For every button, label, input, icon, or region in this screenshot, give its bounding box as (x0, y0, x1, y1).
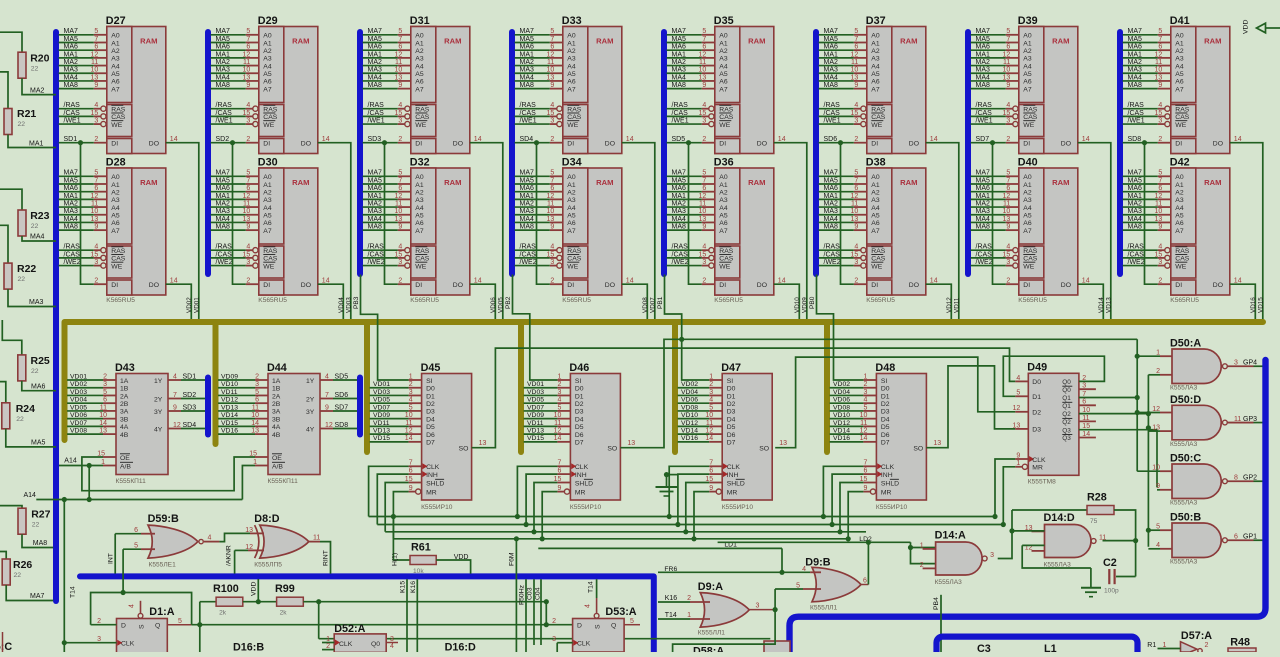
svg-text:4: 4 (1006, 102, 1010, 109)
svg-text:/WE1: /WE1 (64, 117, 81, 124)
svg-text:A5: A5 (719, 71, 728, 78)
svg-text:4: 4 (702, 244, 706, 251)
svg-text:13: 13 (699, 216, 707, 223)
svg-text:R100: R100 (213, 583, 239, 595)
svg-text:Q3: Q3 (1062, 427, 1071, 434)
svg-text:12: 12 (243, 193, 251, 200)
svg-text:CLK: CLK (426, 464, 440, 471)
svg-text:RINT: RINT (323, 550, 330, 566)
svg-text:DI: DI (871, 141, 878, 148)
svg-text:3B: 3B (120, 416, 129, 423)
svg-text:A3: A3 (871, 56, 880, 63)
svg-text:A5: A5 (263, 71, 272, 78)
svg-text:MA3: MA3 (64, 67, 79, 74)
OE link D43-D44 (82, 457, 255, 491)
svg-text:К555ЛП5: К555ЛП5 (254, 562, 282, 569)
svg-text:D4: D4 (575, 416, 584, 423)
svg-text:2k: 2k (280, 610, 288, 617)
svg-text:A4: A4 (567, 205, 576, 212)
power VCC arrow (1257, 23, 1266, 33)
svg-text:4: 4 (1158, 102, 1162, 109)
svg-text:DI: DI (263, 141, 270, 148)
svg-text:CLK: CLK (727, 464, 741, 471)
svg-text:VD09: VD09 (801, 297, 808, 313)
svg-text:7: 7 (1006, 36, 1010, 43)
svg-text:D16:B: D16:B (233, 642, 264, 653)
svg-text:A7: A7 (871, 86, 880, 93)
blue bus GP right side and box (790, 360, 1266, 652)
svg-text:9: 9 (854, 82, 858, 89)
svg-text:VD13: VD13 (527, 428, 544, 435)
svg-text:3: 3 (702, 259, 706, 266)
svg-text:MA3: MA3 (368, 208, 383, 215)
svg-text:13: 13 (395, 216, 403, 223)
svg-text:5: 5 (1016, 390, 1020, 397)
svg-text:2Y: 2Y (154, 396, 163, 403)
svg-text:VD12: VD12 (833, 420, 850, 427)
svg-text:A2: A2 (1175, 189, 1184, 196)
svg-text:D44: D44 (267, 362, 287, 374)
svg-text:D40: D40 (1018, 157, 1038, 169)
svg-text:MA3: MA3 (216, 208, 231, 215)
svg-text:A1: A1 (263, 40, 272, 47)
svg-text:A/B: A/B (272, 463, 283, 470)
svg-text:INH: INH (727, 472, 739, 479)
svg-text:A5: A5 (111, 213, 120, 220)
svg-text:VD01: VD01 (373, 381, 390, 388)
svg-text:11: 11 (1155, 200, 1162, 207)
svg-text:L1: L1 (1044, 643, 1057, 652)
svg-text:5: 5 (398, 170, 402, 177)
svg-text:CLK: CLK (1032, 457, 1046, 464)
svg-text:VDD: VDD (454, 554, 469, 561)
svg-text:3: 3 (103, 381, 107, 388)
svg-text:MA6: MA6 (824, 44, 839, 51)
NAND gate D14:D K555LA3 (1025, 512, 1107, 569)
svg-text:A1: A1 (719, 182, 728, 189)
svg-text:MA2: MA2 (64, 200, 79, 207)
net FR6 (658, 571, 810, 573)
svg-text:CAS: CAS (719, 256, 733, 263)
svg-text:9: 9 (1006, 82, 1010, 89)
svg-text:MA7: MA7 (1128, 28, 1143, 35)
svg-text:A3: A3 (871, 197, 880, 204)
svg-text:12: 12 (395, 193, 403, 200)
svg-text:DO: DO (453, 141, 463, 148)
svg-text:4: 4 (398, 244, 402, 251)
svg-text:CAS: CAS (1023, 256, 1037, 263)
svg-text:VD07: VD07 (527, 404, 544, 411)
svg-text:4: 4 (702, 102, 706, 109)
svg-text:/WE2: /WE2 (368, 259, 385, 266)
XOR gate D8:D K555LP5 (235, 513, 309, 569)
svg-text:13: 13 (851, 216, 859, 223)
svg-text:14: 14 (930, 277, 938, 284)
svg-text:3: 3 (398, 259, 402, 266)
svg-text:6: 6 (854, 44, 858, 51)
svg-text:VD15: VD15 (1257, 297, 1264, 313)
svg-text:13: 13 (1013, 422, 1021, 429)
svg-text:3: 3 (756, 603, 760, 610)
svg-text:15: 15 (851, 251, 859, 258)
svg-text:2: 2 (246, 277, 250, 284)
svg-text:RAM: RAM (444, 37, 461, 46)
svg-text:CAS: CAS (111, 114, 125, 121)
svg-text:VD09: VD09 (221, 373, 238, 380)
svg-text:MA2: MA2 (976, 200, 991, 207)
svg-text:K565RU5: K565RU5 (866, 297, 895, 304)
svg-text:CAS: CAS (263, 114, 277, 121)
svg-text:2A: 2A (120, 393, 129, 400)
svg-text:VD10: VD10 (833, 412, 850, 419)
svg-text:OE: OE (272, 455, 282, 462)
svg-text:SI: SI (426, 378, 433, 385)
svg-text:RAS: RAS (415, 107, 429, 114)
svg-text:PB3: PB3 (353, 296, 360, 309)
svg-text:14: 14 (778, 136, 786, 143)
svg-text:PB4: PB4 (933, 597, 940, 610)
svg-text:22: 22 (31, 368, 39, 375)
vertical nets feeding D50 gates (1147, 375, 1149, 547)
svg-text:D14:D: D14:D (1044, 512, 1075, 524)
svg-text:RAM: RAM (140, 37, 157, 46)
svg-text:MR: MR (1032, 465, 1043, 472)
svg-text:DI: DI (111, 282, 118, 289)
D14:D out wire (1103, 540, 1136, 542)
svg-text:13: 13 (1155, 74, 1163, 81)
svg-text:DO: DO (757, 282, 767, 289)
svg-text:9: 9 (1016, 452, 1020, 459)
svg-text:SD1: SD1 (64, 136, 78, 143)
svg-text:VD11: VD11 (953, 297, 960, 313)
svg-text:5: 5 (94, 28, 98, 35)
svg-text:7: 7 (854, 36, 858, 43)
D9:A out to D9:B in (774, 589, 776, 610)
svg-text:A0: A0 (263, 174, 272, 181)
svg-text:D2: D2 (727, 401, 736, 408)
svg-text:VD01: VD01 (70, 373, 87, 380)
svg-text:MA8: MA8 (64, 82, 79, 89)
svg-text:A0: A0 (719, 174, 728, 181)
svg-text:3: 3 (246, 117, 250, 124)
svg-text:22: 22 (18, 121, 26, 128)
svg-text:12: 12 (1155, 193, 1163, 200)
R61 wiring (393, 517, 410, 561)
svg-text:DI: DI (1175, 141, 1182, 148)
svg-text:VD10: VD10 (221, 381, 238, 388)
svg-text:10: 10 (91, 67, 99, 74)
svg-text:A5: A5 (1023, 213, 1032, 220)
svg-text:/CAS: /CAS (64, 110, 81, 117)
svg-text:MA4: MA4 (672, 74, 687, 81)
svg-text:12: 12 (395, 51, 403, 58)
svg-text:A7: A7 (567, 228, 576, 235)
svg-text:D7: D7 (881, 440, 890, 447)
svg-text:3Y: 3Y (306, 409, 315, 416)
svg-text:A1: A1 (871, 40, 880, 47)
svg-text:7: 7 (709, 460, 713, 467)
svg-text:12: 12 (243, 51, 251, 58)
svg-text:Q0: Q0 (1062, 379, 1071, 386)
svg-text:9: 9 (702, 224, 706, 231)
net LD2 (718, 541, 911, 543)
R100/R99 wiring (200, 601, 216, 603)
svg-text:6: 6 (1234, 534, 1238, 541)
svg-text:9: 9 (173, 404, 177, 411)
svg-text:D4: D4 (426, 416, 435, 423)
svg-text:MA2: MA2 (976, 59, 991, 66)
svg-text:MA6: MA6 (672, 185, 687, 192)
svg-text:/CAS: /CAS (672, 251, 689, 258)
svg-text:11: 11 (313, 535, 320, 542)
svg-text:MA8: MA8 (976, 82, 991, 89)
svg-text:2: 2 (702, 277, 706, 284)
svg-text:MA6: MA6 (976, 185, 991, 192)
resistor R99 2k (277, 597, 304, 606)
svg-text:D42: D42 (1170, 157, 1190, 169)
svg-text:/WE2: /WE2 (672, 259, 689, 266)
svg-text:DO: DO (605, 282, 615, 289)
svg-text:3: 3 (97, 636, 101, 643)
svg-text:VD14: VD14 (833, 428, 850, 435)
NAND gate D14:A K555LA3 (920, 530, 994, 587)
svg-text:D45: D45 (421, 362, 441, 374)
D45 control wiring (369, 466, 409, 516)
svg-text:SHLD: SHLD (881, 480, 899, 487)
svg-text:6: 6 (246, 185, 250, 192)
D1:A feedback loop (91, 593, 192, 625)
svg-text:SD5: SD5 (335, 373, 349, 380)
svg-text:VD16: VD16 (681, 435, 698, 442)
svg-text:2: 2 (1006, 136, 1010, 143)
svg-text:10: 10 (1152, 465, 1160, 472)
svg-text:A7: A7 (567, 86, 576, 93)
bus PB2 column 2 (205, 32, 211, 274)
svg-text:VD01: VD01 (193, 297, 200, 313)
svg-text:RAM: RAM (900, 37, 917, 46)
svg-text:5: 5 (134, 543, 138, 550)
svg-text:R22: R22 (17, 263, 36, 275)
svg-text:VD15: VD15 (527, 435, 544, 442)
svg-text:2: 2 (709, 381, 713, 388)
net LD1 (538, 547, 782, 549)
svg-text:6: 6 (702, 185, 706, 192)
svg-text:D58:A: D58:A (693, 646, 724, 653)
net SD2 (211, 142, 246, 144)
Q output long wire (192, 624, 573, 626)
svg-text:MA4: MA4 (520, 216, 535, 223)
svg-text:D0: D0 (426, 386, 435, 393)
svg-text:D32: D32 (410, 157, 430, 169)
svg-text:MA4: MA4 (30, 234, 45, 241)
svg-text:6: 6 (1006, 185, 1010, 192)
svg-text:4: 4 (550, 102, 554, 109)
svg-text:14: 14 (554, 435, 562, 442)
wire to D1:A D-input loop (122, 549, 124, 592)
svg-text:K565RU5: K565RU5 (106, 297, 135, 304)
svg-text:CLK: CLK (121, 641, 135, 648)
svg-text:MA4: MA4 (1128, 216, 1143, 223)
svg-text:A4: A4 (871, 205, 880, 212)
svg-text:A2: A2 (871, 48, 880, 55)
svg-text:12: 12 (547, 51, 555, 58)
svg-text:A4: A4 (1023, 63, 1032, 70)
svg-text:MA1: MA1 (368, 51, 383, 58)
svg-text:12: 12 (91, 193, 99, 200)
svg-text:3: 3 (94, 117, 98, 124)
svg-text:T14: T14 (588, 581, 595, 593)
svg-text:/CAS: /CAS (216, 251, 233, 258)
svg-text:RAS: RAS (1023, 107, 1037, 114)
RAM D32 K565RU5 (363, 157, 496, 321)
svg-text:SD8: SD8 (1128, 136, 1142, 143)
svg-text:13: 13 (91, 74, 99, 81)
svg-text:MA1: MA1 (1128, 193, 1143, 200)
svg-text:D36: D36 (714, 157, 734, 169)
svg-text:15: 15 (699, 110, 707, 117)
svg-text:2: 2 (103, 373, 107, 380)
svg-text:A3: A3 (1175, 197, 1184, 204)
svg-text:D43: D43 (115, 362, 135, 374)
svg-text:10: 10 (1003, 208, 1011, 215)
svg-text:D7: D7 (575, 440, 584, 447)
bus PB7 column 7 (965, 32, 971, 274)
svg-text:6: 6 (863, 578, 867, 585)
svg-text:MA5: MA5 (64, 36, 79, 43)
svg-text:MA3: MA3 (824, 67, 839, 74)
svg-text:C3: C3 (977, 643, 991, 652)
svg-text:2: 2 (94, 277, 98, 284)
svg-text:MA4: MA4 (824, 216, 839, 223)
svg-text:DO: DO (909, 141, 919, 148)
svg-text:10: 10 (395, 67, 403, 74)
svg-text:VD05: VD05 (70, 404, 87, 411)
svg-text:6: 6 (409, 468, 413, 475)
svg-text:VD07: VD07 (70, 420, 87, 427)
svg-text:/CAS: /CAS (368, 110, 385, 117)
svg-text:A5: A5 (719, 213, 728, 220)
svg-text:RAS: RAS (871, 248, 885, 255)
svg-text:/RAS: /RAS (368, 244, 385, 251)
svg-text:A2: A2 (111, 189, 120, 196)
svg-text:MA4: MA4 (64, 216, 79, 223)
svg-text:D2: D2 (426, 401, 435, 408)
net SD7 (971, 142, 1006, 144)
svg-text:K565RU5: K565RU5 (714, 297, 743, 304)
svg-text:10k: 10k (413, 568, 424, 575)
net T14 to D53 S (596, 579, 598, 598)
svg-text:SHLD: SHLD (575, 480, 593, 487)
svg-text:A7: A7 (1175, 86, 1184, 93)
svg-text:A0: A0 (415, 174, 424, 181)
svg-text:D50:A: D50:A (1170, 338, 1201, 350)
svg-text:5: 5 (255, 389, 259, 396)
svg-text:MA8: MA8 (368, 224, 383, 231)
svg-text:A7: A7 (1175, 228, 1184, 235)
svg-text:A5: A5 (1175, 213, 1184, 220)
svg-text:К555ИР10: К555ИР10 (421, 504, 453, 511)
SI feed D45 from bus PB3 (361, 275, 409, 381)
svg-text:12: 12 (705, 428, 713, 435)
svg-text:1: 1 (863, 373, 867, 380)
svg-text:4Y: 4Y (306, 426, 315, 433)
svg-text:D47: D47 (721, 362, 741, 374)
net F6M (515, 539, 517, 652)
svg-text:7: 7 (550, 177, 554, 184)
svg-text:A5: A5 (263, 213, 272, 220)
svg-text:A0: A0 (415, 33, 424, 40)
svg-text:1: 1 (920, 542, 924, 549)
wire D59 out to D8 in13 (204, 541, 219, 543)
svg-text:MA8: MA8 (672, 224, 687, 231)
svg-text:DO: DO (757, 141, 767, 148)
resistor R21 22 (4, 109, 12, 135)
svg-text:S: S (139, 624, 146, 629)
svg-text:D38: D38 (866, 157, 886, 169)
svg-text:/WE2: /WE2 (64, 259, 81, 266)
long wire at 638.7 (319, 638, 771, 640)
svg-text:MA1: MA1 (1128, 51, 1143, 58)
svg-text:SD3: SD3 (183, 404, 197, 411)
svg-text:6: 6 (702, 44, 706, 51)
svg-text:22: 22 (31, 223, 39, 230)
svg-text:D50:D: D50:D (1170, 394, 1201, 406)
svg-text:14: 14 (170, 277, 178, 284)
AB link to D44 (242, 466, 255, 500)
svg-text:A3: A3 (567, 56, 576, 63)
resistor R20 22 (18, 52, 26, 78)
svg-text:MA1: MA1 (216, 51, 231, 58)
svg-text:MA4: MA4 (672, 216, 687, 223)
svg-text:VD03: VD03 (345, 297, 352, 313)
svg-text:9: 9 (702, 82, 706, 89)
svg-text:2: 2 (398, 277, 402, 284)
svg-text:VD06: VD06 (681, 397, 698, 404)
svg-text:C03: C03 (527, 587, 534, 600)
bus PB8 column 8 (1117, 32, 1123, 274)
svg-text:11: 11 (252, 404, 259, 411)
net SD4 (515, 142, 550, 144)
svg-text:R21: R21 (17, 108, 36, 120)
svg-text:DO: DO (1061, 141, 1071, 148)
svg-text:3: 3 (1006, 117, 1010, 124)
svg-text:A5: A5 (111, 71, 120, 78)
olive data bus VD01..VD16 (65, 322, 1264, 440)
svg-text:VD07: VD07 (649, 297, 656, 313)
svg-text:12: 12 (699, 193, 707, 200)
svg-text:CAS: CAS (567, 114, 581, 121)
svg-text:MA1: MA1 (672, 51, 687, 58)
svg-text:MA8: MA8 (520, 82, 535, 89)
svg-text:/WE1: /WE1 (976, 117, 993, 124)
svg-text:MA6: MA6 (216, 44, 231, 51)
svg-text:MA3: MA3 (1128, 67, 1143, 74)
svg-text:WE: WE (1023, 122, 1034, 129)
svg-text:15: 15 (1155, 110, 1163, 117)
svg-text:R1: R1 (1147, 642, 1156, 649)
svg-text:5: 5 (863, 404, 867, 411)
svg-text:MA1: MA1 (64, 51, 79, 58)
svg-text:11: 11 (1155, 59, 1162, 66)
SD bus at D44 outputs (357, 378, 363, 435)
svg-text:1A: 1A (272, 378, 281, 385)
svg-text:К555ЛА3: К555ЛА3 (1170, 441, 1198, 448)
svg-text:VD09: VD09 (373, 412, 390, 419)
svg-text:15: 15 (91, 251, 99, 258)
svg-text:R28: R28 (1087, 492, 1107, 504)
svg-text:MA3: MA3 (824, 208, 839, 215)
svg-text:6: 6 (94, 44, 98, 51)
